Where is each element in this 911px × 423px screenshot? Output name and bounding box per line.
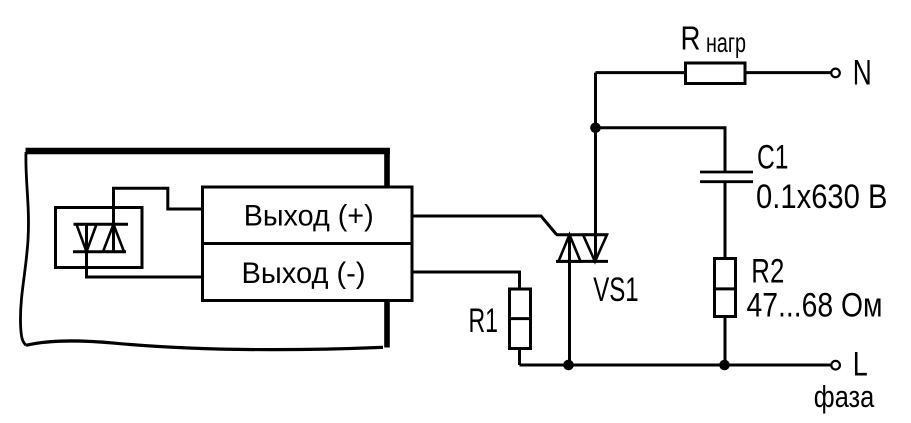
svg-text:нагр: нагр — [706, 27, 746, 58]
wire opto top terminal to Выход (+) box — [114, 188, 203, 251]
L phase line — [520, 364, 831, 367]
device enclosure right thick edge — [384, 148, 390, 348]
resistor R нагр — [686, 63, 746, 84]
triac VS1 left triangle — [559, 235, 581, 262]
triac VS1 right triangle — [583, 235, 607, 262]
capacitor C1 bottom plate — [700, 180, 753, 183]
wire opto bottom terminal to Выход (-) box — [87, 224, 203, 277]
wire triac top to R load — [596, 71, 686, 74]
resistor R2 — [715, 259, 736, 317]
svg-text:Выход (+): Выход (+) — [244, 200, 374, 233]
opto-triac bottom bar — [73, 250, 126, 253]
opto-triac terminal line through right triangle — [112, 205, 115, 252]
wire R load to N terminal — [745, 71, 831, 74]
device enclosure top thick edge — [26, 148, 390, 154]
junction node at triac top branch — [590, 123, 601, 134]
svg-text:R2: R2 — [751, 252, 784, 290]
optocoupler box — [56, 208, 143, 268]
triac VS1 vertical wire bottom — [568, 235, 571, 365]
opto-triac right triangle — [103, 224, 124, 251]
svg-text:C1: C1 — [757, 139, 789, 177]
output terminals box — [203, 187, 413, 301]
device enclosure wavy bottom edge — [26, 341, 383, 350]
svg-text:R1: R1 — [469, 302, 499, 340]
wire C1 to R2 — [724, 182, 727, 259]
terminal L circle — [831, 361, 840, 370]
wire R1 to L line — [518, 349, 521, 366]
junction node VS1 bottom — [563, 360, 574, 371]
svg-text:R: R — [681, 19, 701, 56]
triac VS1 top bar — [556, 233, 608, 236]
svg-text:L: L — [853, 346, 868, 384]
terminal N circle — [831, 69, 840, 78]
wire junction to C1 branch — [596, 128, 726, 172]
divider between output rows — [203, 242, 412, 245]
svg-text:Выход (-): Выход (-) — [242, 257, 366, 290]
capacitor C1 top plate — [700, 171, 753, 174]
svg-text:47...68 Ом: 47...68 Ом — [747, 287, 883, 325]
svg-text:0.1x630 В: 0.1x630 В — [756, 178, 888, 216]
svg-text:N: N — [853, 54, 872, 93]
wire Выход (+) to VS1 gate — [412, 216, 557, 235]
wire R2 to L line — [724, 317, 727, 366]
wire Выход (-) down to R1 — [412, 272, 520, 289]
svg-text:фаза: фаза — [814, 379, 875, 414]
device enclosure torn left edge — [20, 152, 28, 345]
triac VS1 vertical wire top — [594, 73, 597, 262]
triac VS1 bottom bar — [556, 260, 608, 263]
junction node R2 bottom — [719, 360, 730, 371]
resistor R1 — [510, 289, 531, 349]
opto-triac terminal line through left triangle — [85, 224, 88, 270]
svg-text:VS1: VS1 — [593, 271, 639, 309]
opto-triac left triangle — [77, 224, 97, 251]
opto-triac top bar — [74, 223, 129, 226]
